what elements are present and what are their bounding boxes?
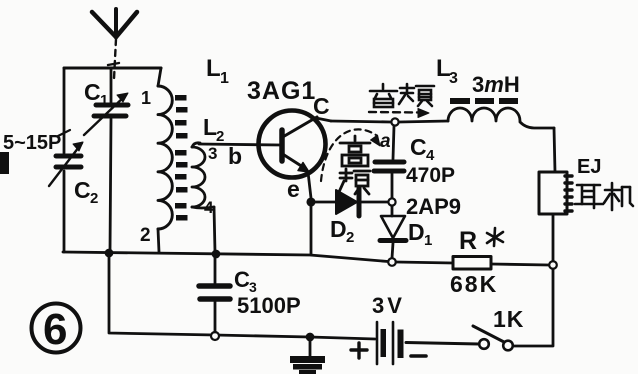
battery plus sign: [351, 343, 367, 358]
svg-text:C: C: [234, 267, 250, 292]
hanzi gaopin (high frequency): [339, 136, 370, 194]
wire switch to battery: [406, 343, 479, 345]
node ring C3 bottom: [211, 332, 219, 340]
svg-text:2: 2: [216, 128, 224, 145]
svg-text:1: 1: [220, 70, 229, 87]
svg-text:5100P: 5100P: [237, 293, 301, 318]
svg-text:2: 2: [140, 225, 151, 246]
svg-text:68K: 68K: [450, 271, 498, 297]
wire top rail right: [399, 121, 448, 122]
svg-text:3AG1: 3AG1: [247, 77, 316, 105]
arrow audio dashed: [369, 109, 429, 118]
wire top of tank: [64, 67, 161, 70]
svg-text:D: D: [330, 216, 347, 242]
node ring D1 bottom: [388, 258, 396, 266]
svg-text:R: R: [459, 227, 477, 255]
battery 3V: [377, 322, 404, 364]
switch K: [473, 326, 513, 350]
svg-text:4: 4: [426, 147, 435, 164]
svg-text:2: 2: [346, 229, 354, 246]
capacitor C3: [199, 256, 230, 332]
wire right rail upper: [554, 128, 555, 172]
diode D2: [314, 188, 388, 216]
wire bottom rail: [109, 253, 375, 339]
wire top rail: [331, 121, 391, 122]
node junction emitter/D2: [307, 198, 315, 206]
svg-text:3: 3: [208, 144, 217, 163]
node junction C1 bottom: [105, 249, 112, 256]
svg-text:L: L: [206, 55, 221, 82]
wire ground lead: [309, 340, 312, 357]
svg-text:e: e: [287, 176, 300, 202]
svg-text:1: 1: [424, 232, 432, 249]
svg-text:a: a: [380, 131, 391, 152]
diode D1: [380, 206, 406, 258]
node junction L2 bottom: [212, 250, 219, 257]
capacitor C1: [84, 68, 128, 252]
wire collector to top rail: [316, 118, 331, 121]
L3 core: [450, 98, 518, 104]
ground: [290, 356, 325, 374]
svg-text:D: D: [408, 219, 425, 245]
svg-text:C: C: [74, 177, 91, 203]
svg-text:2AP9: 2AP9: [406, 194, 461, 219]
svg-text:4: 4: [204, 198, 214, 217]
node ring right rail: [549, 261, 557, 269]
earphone EJ: [539, 172, 572, 214]
wire left rail lower: [63, 171, 66, 252]
svg-text:2: 2: [90, 190, 98, 207]
arrow high-frequency dashed arc: [321, 129, 380, 181]
circled figure number 6: [32, 304, 81, 353]
svg-text:L: L: [203, 114, 217, 140]
wire left rail upper: [63, 68, 66, 153]
svg-text:470P: 470P: [406, 164, 455, 187]
node a ring: [391, 118, 398, 125]
svg-text:C: C: [410, 134, 427, 160]
asterisk of R*: [487, 228, 503, 246]
ink blotch left edge: [0, 152, 9, 174]
antenna: [92, 9, 137, 79]
svg-text:3mH: 3mH: [472, 72, 520, 97]
wire emitter down: [308, 172, 311, 198]
wire resistor to right node: [491, 264, 549, 265]
inductor L2: [192, 143, 215, 252]
transformer core: [175, 95, 188, 221]
wire emitter rail down: [310, 205, 313, 254]
hanzi yinpin (audio): [370, 84, 434, 107]
svg-text:1K: 1K: [493, 306, 524, 332]
capacitor C4: [374, 126, 404, 198]
svg-text:EJ: EJ: [577, 156, 601, 178]
svg-text:3V: 3V: [372, 293, 405, 318]
svg-text:C: C: [84, 79, 101, 105]
battery minus sign: [411, 354, 426, 358]
node junction ground: [306, 333, 313, 340]
node ring D2/D1/C4: [388, 198, 395, 205]
svg-text:5~15P: 5~15P: [3, 132, 61, 154]
svg-text:1: 1: [100, 92, 108, 109]
capacitor C2: [49, 130, 83, 186]
resistor R* 68K: [453, 257, 491, 270]
wire mid rail: [63, 252, 388, 262]
wire right rail lower: [552, 214, 555, 261]
svg-text:b: b: [228, 143, 242, 169]
inductor L1: [158, 68, 172, 252]
svg-text:1: 1: [141, 88, 151, 108]
svg-text:6: 6: [43, 305, 67, 354]
svg-text:3: 3: [449, 70, 458, 87]
hanzi erji (earphone): [575, 183, 633, 210]
inductor L3: [448, 108, 554, 128]
transistor Q1 3AG1: [259, 111, 326, 178]
wire base lead: [199, 144, 281, 145]
